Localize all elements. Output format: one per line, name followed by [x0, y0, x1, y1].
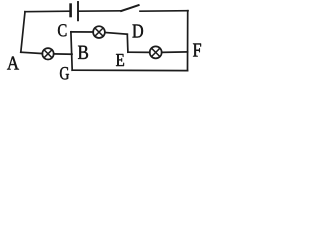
wire A row left: [21, 52, 43, 53]
node A label: [7, 57, 19, 70]
node C label: [58, 24, 66, 36]
wire A row right: [54, 53, 72, 55]
switch S1 lever (open): [121, 5, 138, 11]
wire E row right: [162, 51, 188, 54]
node G label: [60, 67, 69, 80]
lamp L3: [150, 46, 162, 58]
node B label: [78, 46, 88, 59]
lamp L2: [93, 26, 105, 38]
node D label: [133, 25, 144, 38]
wire left edge: [21, 12, 25, 53]
wire top-left segment: [25, 10, 69, 13]
wire E row left: [128, 51, 150, 53]
battery B1 short plate: [69, 5, 72, 16]
wire bottom G branch: [72, 69, 187, 71]
lamp L1: [42, 48, 53, 59]
node F label: [193, 44, 201, 57]
battery B1 long plate: [77, 2, 79, 20]
wire battery to switch: [79, 10, 122, 12]
wire right edge: [187, 11, 189, 71]
wire switch to top-right: [140, 10, 188, 13]
node E label: [116, 54, 124, 66]
wire D drop: [126, 34, 129, 52]
wire C row left: [71, 31, 93, 33]
wire bus B node: [71, 32, 72, 70]
wire C row right to D corner: [105, 33, 127, 35]
